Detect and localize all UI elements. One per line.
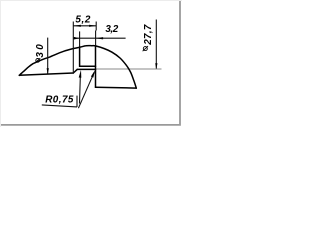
svg-text:5,2: 5,2 xyxy=(75,15,91,26)
svg-text:27,7: 27,7 xyxy=(143,24,154,46)
svg-text:30: 30 xyxy=(35,44,46,58)
svg-text:3,2: 3,2 xyxy=(105,24,118,35)
svg-text:R0,75: R0,75 xyxy=(45,95,74,106)
